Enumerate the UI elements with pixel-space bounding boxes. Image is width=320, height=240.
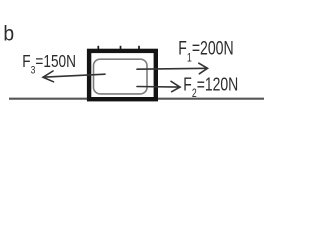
svg-text:b: b	[3, 23, 14, 46]
